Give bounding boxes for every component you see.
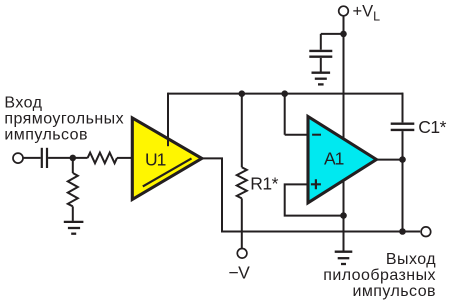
svg-text:U1: U1 [145,149,166,169]
svg-text:прямоугольных: прямоугольных [4,111,124,128]
svg-text:A1: A1 [324,148,344,168]
svg-text:Выход: Выход [386,251,436,268]
svg-text:импульсов: импульсов [352,283,436,300]
svg-text:C1*: C1* [418,117,446,137]
svg-text:Вход: Вход [4,95,42,112]
svg-text:импульсов: импульсов [4,127,88,144]
svg-text:+VL: +VL [353,2,381,23]
svg-text:пилообразных: пилообразных [323,267,436,284]
svg-text:R1*: R1* [250,173,278,193]
svg-text:−V: −V [228,262,250,282]
